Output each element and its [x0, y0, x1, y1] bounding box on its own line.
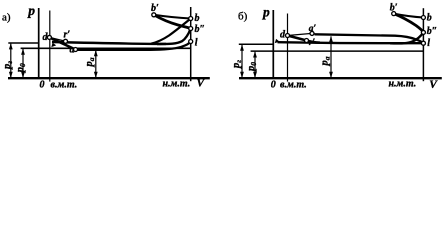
svg-text:a: a — [70, 45, 75, 56]
svg-text:b′: b′ — [151, 3, 159, 14]
svg-text:б): б) — [238, 11, 248, 23]
svg-text:b′: b′ — [390, 2, 398, 13]
svg-text:V: V — [429, 79, 438, 91]
svg-text:а): а) — [2, 12, 11, 24]
svg-text:b″: b″ — [427, 26, 438, 37]
svg-text:н.м.т.: н.м.т. — [389, 79, 417, 90]
svg-text:r′: r′ — [309, 38, 316, 48]
svg-text:p: p — [27, 3, 35, 18]
svg-text:b: b — [195, 13, 200, 24]
svg-text:0: 0 — [40, 80, 45, 91]
svg-text:V: V — [197, 78, 206, 90]
svg-text:l: l — [427, 38, 430, 49]
svg-text:в.м.т.: в.м.т. — [280, 80, 307, 91]
svg-text:0: 0 — [271, 80, 276, 91]
svg-text:a′: a′ — [309, 24, 317, 34]
svg-text:b: b — [427, 13, 432, 24]
svg-text:p: p — [262, 5, 270, 20]
svg-text:b″: b″ — [195, 24, 206, 35]
svg-text:н.м.т.: н.м.т. — [163, 79, 191, 90]
svg-text:в.м.т.: в.м.т. — [51, 80, 78, 91]
svg-text:l: l — [195, 37, 198, 48]
svg-text:r′: r′ — [64, 30, 71, 41]
